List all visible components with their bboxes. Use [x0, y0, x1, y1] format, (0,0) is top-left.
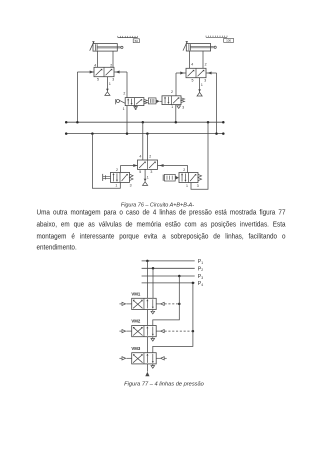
wire a1 port 2 up to valve 1B pilot	[175, 73, 177, 96]
wire cylinder B port 2 to valve 1B	[202, 51, 204, 68]
svg-text:Figura 77 – 4 linhas de pressã: Figura 77 – 4 linhas de pressão	[124, 381, 204, 387]
svg-text:4: 4	[191, 63, 193, 67]
valve 1B port 1 air supply	[199, 78, 201, 92]
svg-text:1: 1	[186, 184, 188, 188]
svg-text:VM3: VM3	[131, 346, 140, 351]
ruler label box	[133, 39, 139, 43]
junction P3	[178, 275, 181, 278]
junction on line 1	[175, 121, 178, 124]
svg-text:3: 3	[112, 78, 114, 82]
junction on line 1	[207, 121, 210, 124]
roller valve a1 3/2 body	[162, 96, 181, 105]
VM1 right pilot arrow	[161, 302, 165, 305]
wire memory valve port 4 to line 1	[142, 122, 144, 160]
VM3 left pilot dash	[119, 357, 121, 359]
cylinder A motion arrow	[90, 42, 94, 51]
svg-text:1: 1	[109, 82, 111, 86]
svg-text:100: 100	[226, 39, 231, 43]
VM3 supply stub	[146, 364, 148, 372]
svg-text:50: 50	[135, 39, 139, 43]
button valve left 3/2 body	[111, 172, 130, 182]
b1 exhaust	[134, 107, 138, 110]
VM3 right pilot dashed dangle	[165, 357, 168, 359]
line end dot	[222, 121, 225, 124]
memory valve port 1 air supply	[144, 169, 146, 181]
a1 actuator pointer	[156, 100, 159, 104]
svg-text:5: 5	[192, 79, 194, 83]
svg-text:3: 3	[182, 105, 184, 109]
svg-text:3: 3	[204, 79, 206, 83]
junction on line 2	[215, 132, 218, 135]
cylinder B piston rod	[190, 46, 213, 48]
button valve right actuator	[162, 175, 164, 181]
memory valve left pilot line	[121, 165, 138, 167]
svg-text:5: 5	[139, 170, 141, 174]
svg-text:VM2: VM2	[131, 319, 140, 324]
VM2 right pilot arrow	[161, 330, 165, 333]
cylinder A body	[93, 44, 117, 52]
VM2 right pilot stub	[156, 330, 160, 332]
wire a1 port 1 down to line 1	[175, 105, 177, 123]
pressure line P2	[142, 267, 195, 269]
button valve left actuator	[102, 174, 104, 181]
valve 1A left pilot arrow	[90, 71, 93, 73]
line end dot	[65, 132, 68, 135]
junction VM2 pilot / P4 riser	[192, 330, 195, 333]
line end dot	[65, 121, 68, 124]
button valve left spring	[130, 174, 134, 180]
valve 1B left pilot arrow	[181, 72, 184, 74]
valve 1A left pilot line	[77, 71, 94, 73]
wire cylinder B port 4 to valve 1B	[189, 51, 191, 68]
svg-text:1: 1	[171, 105, 173, 109]
valve 1B 5/2 body	[186, 68, 206, 77]
VM3 right pilot arrow	[161, 357, 165, 360]
roller valve b1 roller lever	[115, 99, 117, 104]
wire b1 port 2 up to valve 1A pilot	[126, 72, 128, 98]
valve 1B right pilot arrow	[208, 72, 211, 74]
wire valve 1B pilot riser to line 2	[216, 73, 218, 134]
valve 1A right pilot arrow	[116, 71, 119, 73]
memory valve right pilot line	[158, 165, 188, 167]
button valve right 3/2 body	[179, 173, 198, 183]
VM2 left pilot dash	[119, 330, 121, 332]
svg-text:2: 2	[205, 63, 207, 67]
VM1 left pilot dash	[119, 303, 121, 305]
svg-text:VM1: VM1	[131, 291, 140, 296]
VM2 left pilot arrow	[122, 330, 126, 333]
pressure line P1	[142, 260, 195, 262]
line end dot	[222, 132, 225, 135]
wire line 1 to button R port 1	[191, 122, 208, 189]
wire b1 port 1 down to line 2	[126, 106, 128, 134]
wire VM1 bottom to VM2 top	[146, 310, 148, 326]
valve 1B right pilot line	[206, 72, 217, 74]
cylinder A piston rod	[97, 46, 120, 48]
VM2 right pilot dashed	[165, 330, 192, 332]
cylinder B motion arrow	[183, 42, 187, 51]
valve 1A right pilot line	[114, 71, 127, 73]
a1 exhaust	[177, 106, 181, 109]
valve 1A port 1 air supply	[106, 77, 108, 92]
svg-text:1: 1	[123, 107, 125, 111]
VM3 air supply triangle	[145, 372, 149, 376]
svg-text:4: 4	[94, 63, 96, 67]
svg-text:2: 2	[171, 90, 173, 94]
svg-text:3: 3	[197, 184, 199, 188]
VM3 exhaust	[151, 366, 155, 369]
valve 1B left pilot line	[176, 72, 186, 74]
wire P4 riser to VM3 supply	[153, 283, 193, 353]
roller valve a1 spring	[181, 98, 185, 103]
junction on line 1	[142, 121, 145, 124]
svg-text:1: 1	[147, 175, 149, 179]
VM1 exhaust	[151, 311, 155, 314]
junction P4	[192, 282, 195, 285]
button valve right spring	[198, 174, 202, 180]
memory valve right pilot arrow	[160, 164, 163, 166]
roller valve a1 actuator box	[148, 98, 156, 104]
VM2 exhaust	[151, 339, 155, 342]
memory valve left pilot arrow	[134, 164, 137, 166]
junction P2	[152, 267, 155, 270]
wire button R port 2 to pilot	[187, 166, 189, 173]
wire cylinder A port 2 to valve 1A	[112, 51, 114, 67]
svg-text:1: 1	[115, 184, 117, 188]
junction on line 2	[91, 132, 94, 135]
svg-text:3: 3	[150, 170, 152, 174]
pressure line 2	[66, 133, 223, 135]
valve VM1 4/2 body	[132, 298, 157, 309]
roller valve b1 spring	[144, 99, 148, 103]
pressure line 1	[66, 121, 223, 123]
wire P1 to VM1	[146, 261, 148, 298]
roller valve b1 3/2 body	[125, 98, 144, 106]
wire memory valve port 2 to line 2	[146, 134, 148, 160]
svg-text:2: 2	[116, 168, 118, 172]
wire P3 riser to VM2 supply	[153, 276, 180, 326]
svg-text:2: 2	[149, 155, 151, 159]
pressure line P3	[142, 275, 195, 277]
wire VM2 bottom to VM3 top	[146, 337, 148, 353]
wire pilot riser to line 1	[76, 72, 78, 122]
VM3 right pilot stub	[156, 357, 160, 359]
wire cylinder A port 4 to valve 1A	[97, 51, 99, 67]
svg-text:1: 1	[201, 83, 203, 87]
distance ruler scale	[206, 36, 227, 38]
memory valve 5/2 body	[138, 160, 158, 169]
valve VM2 4/2 body	[132, 326, 157, 337]
pressure line P4	[142, 282, 195, 284]
ruler label box	[224, 39, 234, 43]
wire line 2 to button L port 1	[92, 134, 120, 189]
svg-text:5: 5	[97, 78, 99, 82]
distance ruler scale	[118, 37, 138, 39]
svg-text:2: 2	[110, 63, 112, 67]
junction on line 1	[76, 121, 79, 124]
svg-text:4: 4	[139, 155, 141, 159]
cylinder A rod end marker	[121, 46, 123, 48]
svg-text:2: 2	[123, 92, 125, 96]
VM1 left pilot arrow	[122, 302, 126, 305]
wire P2 to VM1	[152, 268, 154, 298]
valve 1A 5/2 body	[94, 67, 114, 76]
cylinder B rod end marker	[214, 46, 216, 48]
VM3 left pilot arrow	[122, 357, 126, 360]
wire button L port 2 to pilot	[120, 166, 122, 173]
svg-text:3: 3	[130, 184, 132, 188]
junction on line 2	[126, 132, 129, 135]
valve VM3 4/2 body	[132, 353, 157, 364]
junction P1	[146, 260, 149, 263]
VM1 right pilot dashed	[165, 303, 178, 305]
junction VM1 pilot / P3 riser	[178, 303, 181, 306]
svg-text:2: 2	[183, 168, 185, 172]
VM1 right pilot stub	[156, 303, 160, 305]
cylinder B body	[186, 44, 210, 52]
junction on line 2	[146, 132, 149, 135]
